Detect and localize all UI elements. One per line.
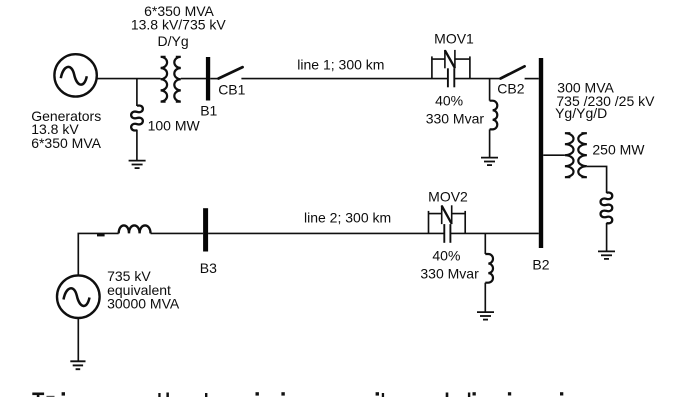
ground: below G2 bbox=[70, 361, 85, 369]
bus B1 bbox=[206, 57, 210, 101]
ground: below shunt reactor 2 bbox=[477, 312, 494, 320]
wire: T2 to 250 MW load bbox=[587, 166, 607, 193]
svg-text:CB2: CB2 bbox=[497, 80, 524, 96]
transformer T1 secondary winding (Yg) bbox=[174, 57, 181, 102]
wire: drop from node to 100 MW resistor bbox=[136, 79, 138, 106]
MOV1 varistor symbol bbox=[445, 50, 455, 68]
inductor: shunt reactor 1 (330 Mvar) bbox=[490, 101, 498, 130]
MOV2 varistor symbol bbox=[442, 205, 452, 224]
wire: drop to shunt reactor 2 bbox=[484, 233, 486, 254]
svg-text:MOV1: MOV1 bbox=[434, 31, 474, 47]
wire: inductor to bus B3 bbox=[151, 232, 204, 234]
transformer T1 primary winding (D) bbox=[161, 57, 168, 102]
svg-text:line 2; 300 km: line 2; 300 km bbox=[304, 209, 391, 225]
wire: line 1, 300 km (CB1 to series capacitor) bbox=[241, 78, 448, 80]
series capacitor SC1 plates (40%) bbox=[448, 68, 454, 87]
wire: shunt reactor 1 to ground bbox=[489, 129, 491, 157]
transformer T2 primary winding (Yg 735 kV) bbox=[565, 133, 574, 177]
bus B3 bbox=[203, 208, 208, 251]
wire: SC1 to CB2 bbox=[454, 78, 500, 80]
svg-text:250 MW: 250 MW bbox=[592, 142, 645, 158]
svg-text:330 Mvar: 330 Mvar bbox=[426, 111, 485, 127]
svg-text:100 MW: 100 MW bbox=[148, 118, 201, 134]
wire: G2 up to line 2 corner bbox=[78, 233, 118, 275]
series capacitor SC2 plates (40%) bbox=[444, 224, 450, 243]
inductor: shunt reactor 2 (330 Mvar) bbox=[485, 254, 493, 283]
ground: below 250 MW load bbox=[598, 251, 615, 259]
svg-text:40%: 40% bbox=[435, 93, 463, 109]
svg-text:B1: B1 bbox=[200, 102, 217, 118]
breaker CB2 (blade) bbox=[501, 66, 525, 78]
tick: source terminal dash bbox=[97, 234, 105, 237]
resistor: 250 MW load bbox=[601, 192, 613, 223]
bus B2 bbox=[539, 58, 543, 248]
svg-text:13.8 kV/735 kV: 13.8 kV/735 kV bbox=[131, 17, 227, 33]
breaker CB1 (blade) bbox=[219, 67, 243, 78]
svg-text:D/Yg: D/Yg bbox=[158, 33, 189, 49]
wire: CB2 to bus B2 bbox=[525, 78, 539, 80]
wire: resistor R1 to ground bbox=[136, 130, 138, 161]
ground: below 100 MW resistor bbox=[129, 161, 146, 169]
wire: SC2 to bus B2 bbox=[450, 232, 538, 234]
ground: below shunt reactor 1 bbox=[481, 158, 498, 166]
wire: G1 to transformer T1 bbox=[97, 78, 161, 80]
svg-text:MOV2: MOV2 bbox=[428, 189, 468, 205]
wire: 250 MW load to ground bbox=[606, 223, 608, 251]
series capacitor bank 2: MOV branch wire bbox=[429, 213, 466, 215]
svg-text:CB1: CB1 bbox=[218, 81, 245, 97]
series capacitor bank 2: left riser post bbox=[428, 211, 430, 234]
breaker CB1 (stub) bbox=[210, 78, 218, 80]
wire: T1 to bus B1 bbox=[181, 78, 206, 80]
wire: drop to shunt reactor 1 bbox=[489, 79, 491, 101]
generator G2 (735 kV equivalent source) bbox=[57, 275, 100, 318]
svg-text:330 Mvar: 330 Mvar bbox=[420, 266, 479, 282]
wire: shunt reactor 2 to ground bbox=[484, 283, 486, 312]
svg-text:B3: B3 bbox=[200, 260, 217, 276]
series capacitor bank 2: right riser post bbox=[464, 211, 466, 234]
svg-text:6*350 MVA: 6*350 MVA bbox=[31, 135, 101, 151]
series capacitor bank 1: left riser post bbox=[431, 56, 433, 78]
series capacitor bank 1: MOV branch wire bbox=[432, 58, 470, 60]
svg-text:line 1; 300 km: line 1; 300 km bbox=[297, 56, 384, 72]
wire: G2 to ground bbox=[77, 318, 79, 361]
svg-text:Yg/Yg/D: Yg/Yg/D bbox=[555, 105, 607, 121]
svg-text:40%: 40% bbox=[432, 247, 460, 263]
caption fragment: tops of "To increase the transmission capacity, each line is series" bbox=[32, 392, 563, 397]
generator G1 (6*350 MVA) bbox=[54, 54, 96, 96]
series capacitor bank 1: right riser post bbox=[469, 56, 471, 78]
transformer T2 secondary winding (Yg/D) bbox=[578, 133, 587, 177]
svg-text:B2: B2 bbox=[532, 256, 549, 272]
inductor: source series impedance bbox=[119, 225, 151, 233]
wire: line 2, 300 km (B3 to series capacitor 2) bbox=[208, 232, 444, 234]
wire: bus B2 to transformer T2 bbox=[543, 154, 565, 156]
resistor R1 100 MW bbox=[131, 105, 143, 130]
svg-text:30000 MVA: 30000 MVA bbox=[107, 296, 180, 312]
